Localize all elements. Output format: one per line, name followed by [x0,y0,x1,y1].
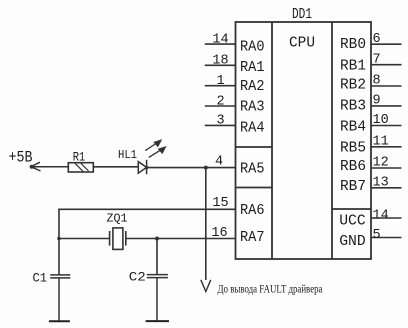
svg-text:C2: C2 [129,270,146,285]
wire pin1 [205,85,236,87]
capacitor C1 [50,275,70,321]
wire pin11 [371,146,402,148]
svg-text:RA5: RA5 [240,160,265,177]
svg-text:RA0: RA0 [240,38,265,55]
wire pin13 [371,187,402,189]
svg-text:3: 3 [216,114,224,129]
wire pin9 [371,105,402,107]
wire pin2 [205,105,236,107]
svg-text:RB2: RB2 [340,77,366,94]
svg-text:11: 11 [373,135,389,150]
ground C1 [49,320,70,322]
wire +5B arrow [31,162,68,171]
svg-text:ZQ1: ZQ1 [107,212,128,226]
svg-text:GND: GND [339,233,366,250]
svg-text:RB0: RB0 [340,36,366,53]
svg-text:RB6: RB6 [340,158,366,175]
svg-text:4: 4 [215,155,223,170]
wire pin14 [205,43,236,45]
wire pin5 GND [371,237,402,239]
wire pin6 [371,43,402,45]
wire pin7 [371,64,402,66]
svg-text:RB7: RB7 [340,178,366,195]
svg-text:RB5: RB5 [340,139,366,156]
ground C2 [146,320,169,322]
junction arrow tip dot [30,165,34,169]
wire pin3 [205,124,236,126]
node junction pin4 [204,166,208,170]
svg-text:2: 2 [216,94,224,109]
svg-text:До вывода FAULT драйвера: До вывода FAULT драйвера [218,282,323,296]
resistor R1 [68,163,93,172]
svg-text:RA2: RA2 [240,78,265,95]
svg-text:R1: R1 [73,149,86,164]
wire R1 to LED [93,166,138,168]
svg-text:RA1: RA1 [240,59,265,76]
svg-text:10: 10 [373,113,389,128]
svg-text:1: 1 [216,74,224,89]
capacitor C2 [147,275,168,321]
node LED cathode junction [145,166,148,169]
svg-text:+5В: +5В [9,149,33,167]
svg-text:RB3: RB3 [340,98,366,115]
svg-text:RA4: RA4 [240,119,265,136]
wire crystal line pin16 RA7 [59,238,236,240]
wire pin15 RA6 [59,209,236,274]
svg-text:RA3: RA3 [240,98,265,115]
svg-text:6: 6 [373,32,381,47]
svg-text:16: 16 [211,226,227,241]
wire pin18 [205,64,236,66]
FAULT arrowhead [201,280,211,292]
svg-text:5: 5 [373,228,381,243]
svg-text:RA6: RA6 [240,202,265,219]
LED light arrows [145,140,165,157]
svg-text:15: 15 [212,196,228,211]
wire junction to C2 [156,239,158,275]
svg-text:14: 14 [373,208,389,223]
svg-text:UCC: UCC [339,212,366,229]
svg-text:CPU: CPU [289,35,315,52]
svg-text:DD1: DD1 [292,6,312,23]
op-amp U1 [236,22,372,259]
svg-text:8: 8 [373,74,381,89]
svg-text:C1: C1 [33,270,48,285]
svg-text:RB1: RB1 [340,57,366,74]
wire pin14 UCC [371,217,402,219]
svg-text:13: 13 [373,176,389,191]
svg-text:12: 12 [373,156,389,171]
svg-text:RA7: RA7 [240,229,265,246]
svg-text:9: 9 [373,94,381,109]
wire junction down to FAULT arrow [205,168,207,280]
wire pin10 [371,125,402,127]
crystal ZQ1 [110,228,126,250]
LED HL1 [138,160,146,174]
svg-text:18: 18 [212,54,228,69]
wire pin12 [371,167,402,169]
node junction crystal right [155,237,159,241]
svg-text:RB4: RB4 [340,119,366,136]
node junction crystal left [57,237,61,241]
svg-text:14: 14 [212,32,228,47]
svg-text:HL1: HL1 [118,148,137,162]
wire LED to pin4 [147,167,236,169]
svg-text:7: 7 [373,52,381,67]
wire pin8 [371,85,402,87]
